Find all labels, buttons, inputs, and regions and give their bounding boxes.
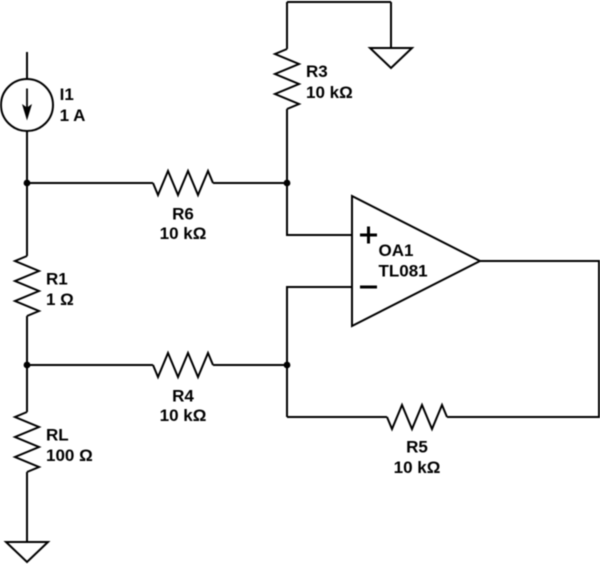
svg-text:OA1: OA1 (379, 241, 414, 260)
wire R5 to feedback vertical (287, 416, 387, 418)
resistor R3 (275, 2, 299, 183)
resistor RL (15, 365, 39, 542)
svg-text:100 Ω: 100 Ω (46, 446, 93, 465)
wire I1 bottom to node A (26, 131, 28, 183)
I1 arrow (22, 89, 32, 121)
svg-text:10 kΩ: 10 kΩ (160, 224, 207, 243)
wire node B to op-amp + input (287, 183, 352, 235)
wire R6 to node B (213, 182, 287, 184)
svg-text:R6: R6 (172, 205, 194, 224)
svg-text:TL081: TL081 (379, 262, 428, 281)
svg-text:R3: R3 (306, 62, 328, 81)
op-amp + pin symbol (360, 227, 377, 244)
svg-text:10 kΩ: 10 kΩ (394, 458, 441, 477)
node B junction dot (284, 180, 291, 187)
node C junction dot (24, 362, 31, 369)
resistor R6 (153, 171, 213, 195)
resistor R4 (153, 353, 213, 377)
svg-text:1 A: 1 A (60, 106, 86, 125)
svg-text:I1: I1 (60, 85, 74, 104)
node D junction dot (284, 362, 291, 369)
output wire (447, 261, 599, 417)
svg-text:10 kΩ: 10 kΩ (306, 83, 353, 102)
svg-text:R4: R4 (172, 386, 194, 405)
svg-text:10 kΩ: 10 kΩ (160, 406, 207, 425)
op-amp - pin symbol (360, 286, 377, 289)
svg-text:R5: R5 (406, 438, 428, 457)
top wire (287, 1, 391, 3)
current source I1 (1, 79, 53, 131)
svg-text:RL: RL (46, 426, 69, 445)
wire node A to R6 (27, 182, 153, 184)
resistor R5 (387, 405, 447, 429)
svg-text:R1: R1 (46, 270, 68, 289)
resistor R1 (15, 183, 39, 365)
wire to ground top right (390, 2, 392, 48)
node A junction dot (24, 180, 31, 187)
ground bottom left (6, 542, 48, 562)
wire R4 to node D (213, 364, 287, 366)
ground top right (370, 48, 412, 68)
wire op-amp - input branch (287, 287, 352, 417)
wire node C to R4 (27, 364, 153, 366)
op-amp OA1 triangle (352, 196, 480, 326)
wire stub above current source (26, 52, 28, 79)
svg-text:1 Ω: 1 Ω (46, 290, 74, 309)
